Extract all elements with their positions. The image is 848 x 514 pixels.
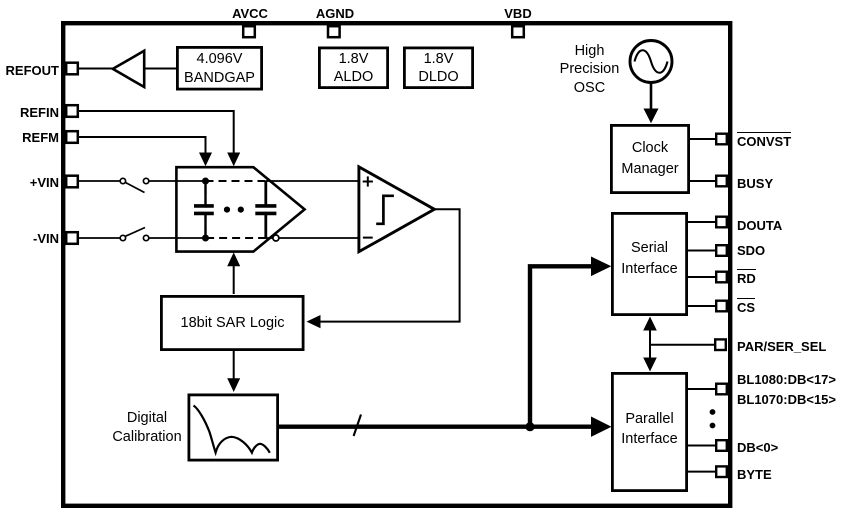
switch S2 (-VIN sampling switch) (120, 228, 149, 241)
arrow into parallel interface (591, 417, 612, 437)
arrow REFIN into cap DAC (227, 153, 240, 167)
arrow REFM into cap DAC (199, 153, 212, 167)
capacitor C1 (194, 181, 214, 238)
dashed cap array boundary (206, 181, 266, 238)
wire parallel to BYTE (687, 471, 716, 473)
label PAR/SER_SEL (737, 340, 826, 353)
wire SAR logic down to digital calibration (233, 351, 235, 380)
pin BUSY (716, 176, 727, 187)
wire serial to SDO (687, 250, 716, 252)
label Parallel Interface (612, 409, 687, 450)
arrow into serial interface (591, 257, 611, 277)
label BYTE (737, 468, 772, 481)
bus junction dot (525, 422, 534, 431)
wire serial to DOUTA (687, 221, 716, 223)
label CS (737, 301, 755, 314)
block Parallel Interface (612, 373, 686, 490)
pin REFOUT (66, 63, 78, 75)
wire switch to cap DAC (+) (149, 180, 206, 182)
thick bus up to serial interface (530, 266, 592, 426)
label REFIN (0, 106, 59, 119)
wire REFM (78, 137, 206, 154)
label REFOUT (0, 64, 59, 77)
wire switch to cap DAC (-) (149, 237, 206, 239)
wire clock manager to CONVST (689, 138, 716, 140)
pin BYTE (716, 466, 727, 477)
wire oscillator to clock manager (650, 83, 653, 112)
wire clock manager to BUSY (689, 180, 716, 182)
block 1.8V DLDO (404, 48, 472, 88)
pin DB0 (716, 440, 727, 451)
label BL1070:DB15 (737, 393, 836, 406)
wire serial to CS (687, 305, 716, 307)
wire to PAR/SER_SEL (650, 344, 715, 346)
label CONVST (737, 135, 791, 148)
label BUSY (737, 177, 773, 190)
pin REFIN (66, 105, 78, 117)
arrow into SAR logic (307, 315, 321, 328)
wire comparator output to SAR logic (320, 209, 460, 321)
wire buffer to bandgap (144, 68, 177, 70)
block Clock Manager (611, 125, 688, 192)
block Serial Interface (612, 213, 686, 314)
label 1.8V DLDO (404, 50, 473, 87)
comparator minus input sign (363, 237, 373, 239)
wire SAR logic up to cap DAC (233, 264, 235, 294)
wire cap DAC to comparator - (266, 237, 359, 239)
pin DB17 bus (716, 384, 727, 395)
oscillator sine wave (635, 50, 668, 73)
label High Precision OSC (555, 42, 624, 98)
label SDO (737, 244, 765, 257)
bus width slash (354, 415, 361, 437)
label AGND (295, 7, 375, 20)
block Digital Calibration filter (189, 395, 278, 460)
comparator plus input sign (363, 176, 373, 186)
buffer amplifier (reference buffer triangle) (113, 51, 144, 87)
bidirectional arrow serial-parallel (643, 317, 657, 372)
capacitive DAC / sample-hold pentagon (176, 167, 304, 251)
label 1.8V ALDO (319, 50, 388, 87)
chip outer border (63, 23, 730, 506)
wire +VIN to switch (78, 180, 120, 182)
block 18bit SAR Logic (161, 296, 303, 349)
wire serial to RD (687, 276, 716, 278)
label -VIN (0, 232, 59, 245)
wire parallel to DB0 (687, 445, 716, 447)
label DB0 (737, 441, 778, 454)
pin REFM (66, 131, 78, 143)
pin -VIN (66, 232, 78, 244)
label AVCC (210, 7, 290, 20)
pin CS (716, 301, 727, 312)
label Serial Interface (612, 238, 687, 280)
wire REFOUT to buffer (78, 68, 113, 70)
capacitor C2 (255, 181, 276, 238)
arrow up into cap DAC bottom (227, 252, 240, 266)
label +VIN (0, 176, 59, 189)
label 18bit SAR Logic (161, 315, 304, 331)
wire -VIN to switch (78, 237, 120, 239)
arrow down into digital calibration (227, 378, 240, 392)
pin SDO (716, 245, 727, 256)
node +rail junction dot (202, 178, 209, 185)
pin AVCC (243, 26, 255, 37)
ellipsis dots in cap array (224, 207, 244, 213)
label DOUTA (737, 219, 782, 232)
pin RD (716, 272, 727, 283)
thick data bus from calibration (277, 425, 592, 429)
block 4.096V BANDGAP (177, 47, 261, 89)
pin PAR/SER_SEL (715, 339, 726, 350)
wire cap DAC to comparator + (266, 180, 359, 182)
label Digital Calibration (77, 409, 217, 446)
label Clock Manager (611, 138, 689, 180)
label RD (737, 272, 756, 285)
ellipsis dots DB pins (710, 409, 716, 428)
wire parallel to DB bus pin (687, 388, 716, 390)
label REFM (0, 131, 59, 144)
high precision oscillator circle (630, 41, 672, 83)
wire REFIN (78, 111, 234, 154)
node -rail junction dot (202, 235, 209, 242)
bubble on pentagon edge (273, 235, 279, 241)
label VBD (478, 7, 558, 20)
pin CONVST (716, 134, 727, 145)
pin VBD (512, 26, 524, 37)
comparator U1 (359, 167, 435, 252)
switch S1 (+VIN sampling switch) (120, 178, 149, 192)
arrow into clock manager (644, 109, 659, 124)
pin AGND (328, 26, 340, 37)
pin DOUTA (716, 217, 727, 228)
calibration decay curve (194, 406, 270, 453)
comparator hysteresis symbol (376, 196, 394, 224)
label BL1080:DB17 (737, 373, 836, 386)
block 1.8V ALDO (319, 48, 387, 88)
pin +VIN (66, 176, 78, 188)
label 4.096V BANDGAP (177, 50, 262, 87)
